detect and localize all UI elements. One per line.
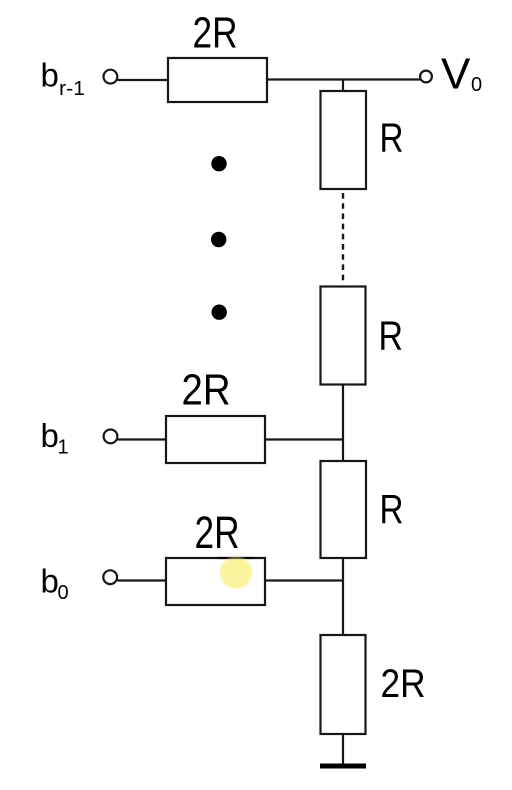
- svg-text:R: R: [379, 312, 404, 358]
- terminal b_r-1: [104, 70, 118, 84]
- label b1: [41, 417, 69, 459]
- terminal V0: [420, 71, 432, 83]
- wire resistor R2R_b0 to node N0: [265, 579, 343, 581]
- resistor R2R_term (2R, vertical bottom): [321, 635, 366, 734]
- node N_msb stub wire: [342, 80, 344, 93]
- resistor R2R_b1 (2R, horizontal): [166, 416, 265, 463]
- ground: [320, 764, 366, 769]
- label b0: [41, 563, 69, 605]
- wire b_r-1 terminal to resistor R2R_msb: [118, 79, 169, 81]
- svg-text:1: 1: [58, 436, 69, 458]
- resistor R_c (R, vertical lower): [321, 461, 367, 558]
- svg-text:2R: 2R: [182, 367, 231, 415]
- wire b1 terminal to resistor R2R_b1: [118, 438, 167, 440]
- svg-text:2R: 2R: [195, 507, 240, 558]
- svg-text:R: R: [380, 114, 404, 160]
- svg-text:R: R: [380, 486, 404, 532]
- svg-text:0: 0: [471, 74, 482, 96]
- svg-text:b: b: [41, 56, 59, 93]
- svg-text:b: b: [41, 417, 59, 454]
- resistor R2R_b0 (2R, horizontal): [166, 558, 265, 605]
- wire resistor R2R_b1 to node N1: [265, 438, 343, 440]
- svg-text:V: V: [441, 50, 471, 99]
- svg-text:r-1: r-1: [59, 78, 85, 100]
- svg-text:b: b: [41, 563, 59, 600]
- wire R2R_term to ground: [342, 734, 344, 766]
- resistor R2R_msb (2R, horizontal): [168, 58, 267, 102]
- ellipsis dots (ladder continuation): [211, 156, 227, 320]
- terminal b1: [104, 430, 118, 444]
- label V0: [441, 50, 482, 99]
- highlight dot (yellow, on R2R_b0): [219, 555, 253, 589]
- wire dashed ladder continuation: [342, 193, 344, 284]
- wire R_c to node N0 to R2R_term: [342, 558, 344, 636]
- svg-text:2R: 2R: [193, 9, 238, 58]
- svg-text:2R: 2R: [381, 662, 426, 706]
- wire output node to terminal V0: [267, 78, 420, 80]
- resistor R_a (R, vertical top): [321, 91, 367, 189]
- label b_r-1: [41, 56, 86, 100]
- svg-text:0: 0: [58, 582, 69, 604]
- terminal b0: [103, 570, 117, 584]
- resistor R_b (R, vertical middle): [321, 287, 366, 385]
- wire b0 terminal to resistor R2R_b0: [118, 579, 167, 581]
- wire R_b to node N1 to R_c: [342, 385, 344, 463]
